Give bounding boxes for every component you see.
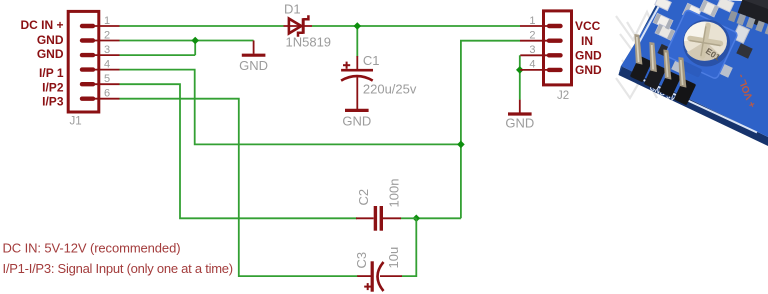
board bottom side face — [619, 66, 768, 146]
svg-text:3: 3 — [104, 44, 110, 56]
wire net GND from J1 pin3 — [120, 54, 196, 56]
J1 pin 2 — [93, 40, 120, 42]
svg-text:GND: GND — [37, 47, 64, 61]
connector J2 box — [544, 11, 572, 85]
svg-text:VCC: VCC — [575, 19, 601, 33]
trimmer pot dial — [684, 22, 727, 61]
J1 pin 3 — [93, 54, 120, 56]
J1 pin 6 — [93, 98, 120, 100]
smd parts — [653, 0, 766, 59]
svg-text:3: 3 — [529, 44, 535, 56]
node A junction — [354, 22, 362, 30]
trimmer pot legs — [671, 59, 686, 74]
svg-text:GND: GND — [239, 58, 268, 73]
header pin shafts — [634, 34, 686, 88]
capacitor C2 — [356, 206, 401, 231]
J2 pin 4 — [520, 69, 549, 71]
svg-text:I/P1-I/P3: Signal Input (only: I/P1-I/P3: Signal Input (only one at a t… — [3, 261, 233, 276]
svg-text:4: 4 — [104, 58, 110, 70]
pot cross slot — [690, 26, 721, 57]
capacitor C1 (polarized) — [341, 56, 373, 109]
svg-text:100n: 100n — [387, 179, 402, 208]
svg-text:4: 4 — [529, 59, 535, 71]
svg-text:1N5819: 1N5819 — [286, 35, 332, 50]
svg-text:J2: J2 — [557, 90, 569, 102]
svg-text:GND: GND — [575, 63, 602, 77]
trimmer pot body — [662, 9, 738, 85]
node C junction — [457, 141, 465, 149]
svg-text:GND: GND — [37, 33, 64, 47]
svg-text:J1: J1 — [70, 116, 82, 128]
svg-text:IN: IN — [581, 34, 593, 48]
svg-text:GND: GND — [342, 113, 371, 128]
svg-text:GND: GND — [505, 116, 534, 131]
J2 pin 3 — [520, 54, 549, 56]
svg-text:C1: C1 — [363, 53, 380, 68]
pot shadow ring — [683, 20, 730, 67]
J1 pin 4 — [93, 69, 120, 71]
ground under J2 — [508, 100, 532, 114]
wire from node A down to C1 — [356, 26, 358, 57]
svg-text:10u: 10u — [386, 247, 401, 269]
header pin bases — [630, 56, 696, 106]
svg-text:C2: C2 — [356, 189, 371, 206]
diode D1 — [284, 15, 313, 37]
wire net P6 from J1 pin6 to C3 left — [120, 99, 358, 276]
SOIC chip U1 — [728, 0, 768, 38]
connector J1 box — [68, 11, 99, 112]
node D junction — [413, 215, 421, 223]
node E junction — [516, 66, 524, 74]
svg-text:1: 1 — [529, 15, 535, 27]
svg-text:C3: C3 — [354, 252, 369, 269]
wire net P5 from J1 pin5 to C2 left — [120, 84, 358, 218]
svg-text:GND: GND — [575, 48, 602, 62]
wire vertical joining pin3 to pin2 net — [194, 41, 196, 56]
svg-text:I/P2: I/P2 — [42, 80, 64, 94]
wire net GND from J1 pin2 to ground — [120, 40, 254, 42]
board top face — [621, 0, 768, 137]
wire vertical net IN up to J2 pin2 — [461, 41, 520, 219]
wire net IN from J1 pin4 — [120, 70, 461, 145]
ground near J1 pins 2,3 — [242, 41, 266, 56]
J2 pin 1 — [520, 25, 549, 27]
J1 pin 5 — [93, 83, 120, 85]
svg-text:I/P3: I/P3 — [42, 94, 64, 108]
wire net GND vertical at J2 pins 3,4 — [519, 55, 521, 99]
J1 pin 1 — [93, 25, 120, 27]
svg-text:2: 2 — [529, 30, 535, 42]
svg-text:220u/25v: 220u/25v — [363, 82, 417, 97]
photo of PCB module — [616, 0, 768, 146]
wire from node D down to C3 right — [402, 218, 417, 276]
node B junction — [191, 37, 199, 45]
svg-text:D1: D1 — [284, 1, 301, 16]
wire green stub C2 right to node D — [401, 217, 417, 219]
svg-text:DC IN: 5V-12V (recommended): DC IN: 5V-12V (recommended) — [3, 241, 181, 256]
capacitor C3 (polarized) — [357, 261, 402, 291]
board left side sliver — [619, 0, 664, 75]
watermark — [616, 12, 664, 98]
wire from node C vertical to node D (C2 right) — [416, 217, 461, 219]
J2 pin 2 — [520, 40, 549, 42]
svg-text:DC IN +: DC IN + — [20, 18, 63, 32]
svg-text:1: 1 — [104, 15, 110, 27]
silk border lines — [636, 4, 660, 48]
wire net DCIN from D1 cathode to J2 pin1 — [312, 25, 520, 27]
ground under C1 — [345, 109, 369, 112]
svg-text:2: 2 — [104, 29, 110, 41]
svg-text:6: 6 — [104, 88, 110, 100]
svg-text:5: 5 — [104, 73, 110, 85]
wire net DCIN from J1 pin1 to D1 anode — [120, 25, 284, 27]
svg-text:I/P 1: I/P 1 — [39, 66, 64, 80]
